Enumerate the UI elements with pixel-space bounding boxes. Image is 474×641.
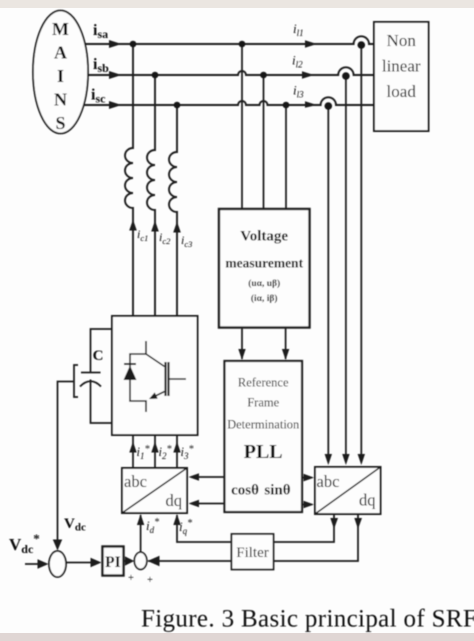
svg-text:Reference: Reference (238, 376, 289, 390)
svg-text:PLL: PLL (244, 441, 283, 463)
svg-text:cosθ: cosθ (231, 483, 259, 499)
svg-text:+: + (128, 573, 134, 584)
svg-text:Voltage: Voltage (240, 229, 288, 245)
svg-text:dq: dq (359, 491, 376, 510)
svg-text:Non: Non (387, 31, 417, 50)
svg-text:(iα, iβ): (iα, iβ) (251, 293, 278, 304)
svg-text:PI: PI (105, 554, 121, 571)
svg-text:Figure. 3 Basic principal of S: Figure. 3 Basic principal of SRF (141, 606, 474, 633)
svg-text:load: load (387, 82, 417, 101)
svg-text:Filter: Filter (236, 545, 269, 561)
svg-text:Frame: Frame (247, 396, 279, 410)
svg-text:S: S (55, 113, 65, 133)
svg-text:C: C (93, 348, 104, 364)
svg-text:A: A (54, 43, 67, 63)
svg-text:abc: abc (124, 472, 147, 491)
svg-text:(uα, uβ): (uα, uβ) (248, 278, 280, 289)
svg-text:dq: dq (166, 491, 183, 510)
svg-text:I: I (57, 66, 64, 86)
svg-text:M: M (52, 19, 69, 39)
svg-text:sinθ: sinθ (264, 483, 290, 499)
svg-text:N: N (54, 90, 67, 110)
svg-text:Determination: Determination (227, 418, 300, 432)
svg-text:measurement: measurement (225, 256, 303, 271)
svg-text:linear: linear (382, 57, 421, 76)
svg-text:abc: abc (317, 472, 340, 491)
svg-text:+: + (147, 575, 153, 586)
